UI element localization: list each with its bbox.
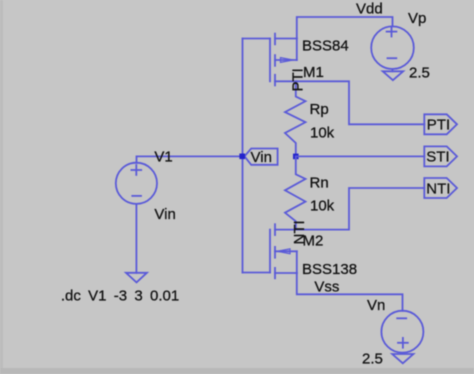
ground under Vp: [392, 69, 394, 71]
junction node STI: [293, 154, 299, 160]
pmos M1 gate bar: [269, 39, 271, 82]
wire PTI net: [297, 81, 425, 124]
left edge shade: [0, 0, 3, 374]
wire M1 gate lead: [243, 38, 271, 40]
svg-text:STI: STI: [426, 149, 449, 166]
svg-text:Rn: Rn: [310, 174, 329, 191]
svg-text:Vn: Vn: [367, 297, 385, 314]
svg-text:BSS138: BSS138: [302, 261, 357, 278]
pmos M1 bulk arrow: [281, 58, 294, 63]
svg-text:Rp: Rp: [310, 101, 329, 118]
resistor Rp: [285, 81, 306, 156]
svg-text:.dc V1 -3 3 0.01: .dc V1 -3 3 0.01: [61, 287, 179, 304]
pmos M1 channel dashes: [274, 34, 276, 45]
svg-text:M2: M2: [303, 232, 324, 249]
wire Vin rail vertical: [242, 39, 244, 273]
voltage source Vn circle: [381, 311, 423, 353]
V1 minus sign: [132, 195, 141, 197]
pmos M1 source-bulk tie: [296, 39, 298, 61]
pmos M1 source stub: [275, 38, 297, 40]
port square Vin: [239, 154, 245, 160]
ground under V1: [126, 273, 147, 283]
nmos M2 source stub: [275, 272, 297, 274]
output flag NTI outline: [424, 178, 457, 198]
nmos M2 bulk stub: [275, 250, 297, 252]
svg-text:BSS84: BSS84: [302, 38, 349, 55]
Vn minus sign: [397, 317, 406, 319]
wire NTI net: [297, 188, 425, 230]
nmos M2 gate bar: [269, 230, 271, 273]
svg-text:10k: 10k: [310, 125, 335, 142]
svg-text:NTI: NTI: [426, 180, 450, 197]
svg-text:V1: V1: [154, 148, 172, 165]
voltage source Vp circle: [371, 26, 414, 69]
svg-text:Vin: Vin: [154, 206, 175, 223]
bottom edge shade: [0, 368, 474, 374]
svg-text:Vin: Vin: [251, 149, 272, 166]
nmos M2 bulk arrow: [278, 249, 291, 254]
output flag PTI outline: [424, 114, 457, 134]
svg-text:Vss: Vss: [314, 278, 339, 295]
pmos M1 bulk stub: [275, 59, 297, 61]
svg-text:2.5: 2.5: [362, 350, 383, 367]
voltage source V1 circle: [116, 163, 157, 204]
V1 plus sign: [131, 169, 141, 171]
Vp plus sign: [387, 31, 397, 33]
wire Vdd: [297, 17, 393, 39]
pmos M1 drain stub: [275, 80, 297, 82]
nmos M2 drain stub: [275, 229, 297, 231]
nmos M2 source-bulk tie: [296, 251, 298, 273]
nmos M2 gate lead: [243, 272, 271, 274]
Vn plus sign: [398, 342, 408, 344]
port flag Vin outline: [245, 149, 278, 165]
resistor Rn: [285, 156, 306, 229]
svg-text:Vp: Vp: [408, 10, 426, 27]
wire V1 to ground: [135, 204, 137, 273]
svg-text:Vdd: Vdd: [356, 1, 383, 18]
ground under Vn: [392, 354, 413, 363]
wire Vss net: [297, 273, 403, 311]
nmos M2 channel dashes: [274, 224, 276, 235]
output flag STI outline: [424, 146, 457, 166]
Vp minus sign: [388, 57, 397, 59]
svg-text:2.5: 2.5: [409, 65, 430, 82]
svg-text:10k: 10k: [310, 198, 335, 215]
wire V1 to Vin port: [137, 156, 240, 162]
svg-text:PTI: PTI: [427, 117, 450, 134]
wire STI net: [296, 155, 425, 157]
svg-text:PTI: PTI: [290, 68, 307, 91]
